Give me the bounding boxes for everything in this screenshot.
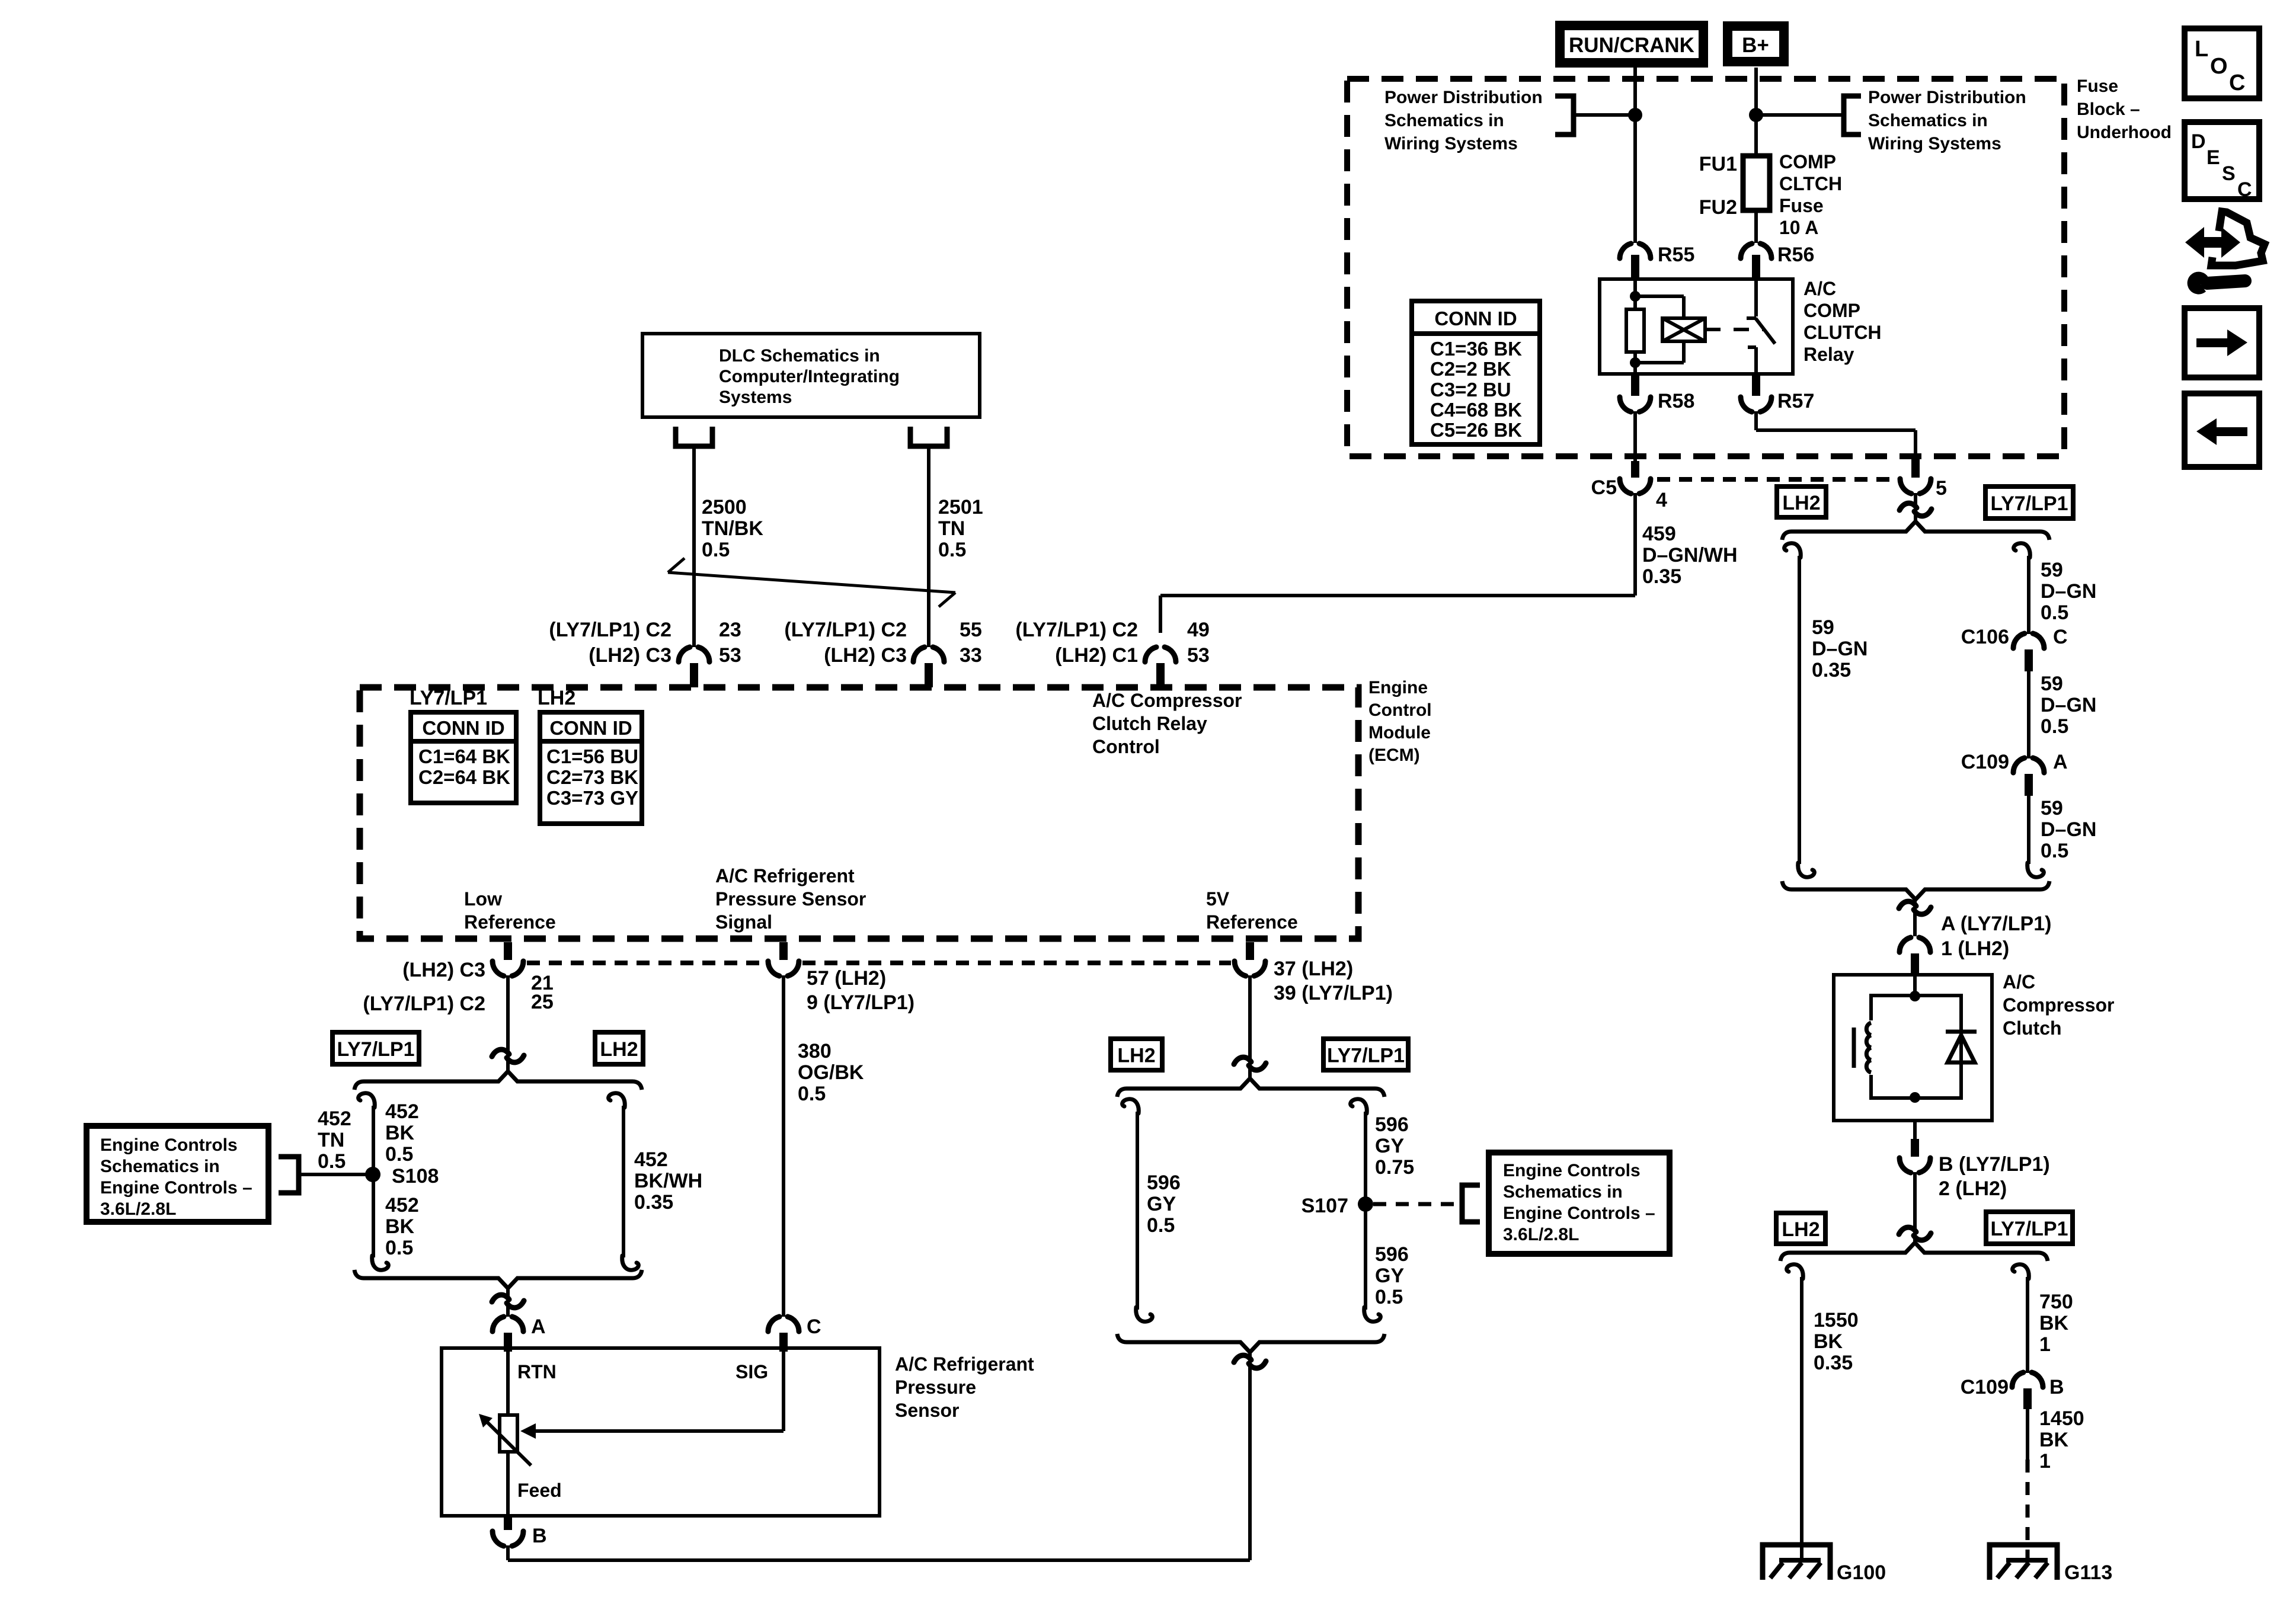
- svg-text:0.75: 0.75: [1375, 1156, 1414, 1179]
- svg-text:55: 55: [960, 619, 982, 641]
- svg-text:(LY7/LP1) C2: (LY7/LP1) C2: [549, 619, 671, 641]
- clutch inner circuit rect: [1871, 996, 1961, 1098]
- svg-text:Schematics in: Schematics in: [100, 1157, 220, 1176]
- svg-text:Power Distribution: Power Distribution: [1868, 88, 2026, 107]
- wire relay switch common: [1754, 279, 1758, 316]
- svg-text:TN/BK: TN/BK: [702, 517, 763, 540]
- svg-text:E: E: [2207, 146, 2220, 169]
- wire bracket to B+ feed: [1756, 113, 1844, 117]
- wire 452 BK/WH: [622, 1106, 625, 1257]
- svg-text:Pressure: Pressure: [895, 1377, 976, 1398]
- svg-text:0.5: 0.5: [702, 539, 730, 561]
- svg-text:RTN: RTN: [517, 1361, 557, 1382]
- pigtail 596 GY left bottom: [1136, 1307, 1153, 1321]
- svg-text:1550: 1550: [1814, 1309, 1859, 1331]
- table CONN ID fuse block: [1412, 301, 1540, 444]
- svg-text:LH2: LH2: [1782, 1218, 1819, 1241]
- svg-text:57 (LH2): 57 (LH2): [807, 967, 886, 990]
- svg-text:RUN/CRANK: RUN/CRANK: [1569, 34, 1694, 57]
- junction node relay top: [1630, 291, 1641, 302]
- wire brace to sensor A: [506, 1286, 510, 1317]
- svg-text:B: B: [2049, 1376, 2064, 1398]
- wire RUN/CRANK to R55: [1633, 68, 1637, 243]
- junction node relay bottom: [1630, 357, 1641, 368]
- svg-text:0.35: 0.35: [1814, 1352, 1853, 1374]
- svg-text:452: 452: [318, 1108, 351, 1130]
- svg-text:0.5: 0.5: [798, 1083, 826, 1105]
- pigtail LY7 branch top (59): [2014, 543, 2030, 558]
- svg-text:Reference: Reference: [1206, 911, 1298, 933]
- svg-text:FU2: FU2: [1699, 196, 1737, 219]
- connector R57: [1752, 374, 1760, 396]
- svg-text:0.5: 0.5: [385, 1237, 413, 1259]
- reference box Engine Controls Schematics (right): [1489, 1153, 1670, 1254]
- svg-text:GY: GY: [1375, 1265, 1404, 1287]
- svg-text:CLTCH: CLTCH: [1779, 173, 1842, 194]
- component box A/C Refrigerant Pressure Sensor: [442, 1348, 880, 1516]
- connector ECM pin 57/9: [779, 942, 788, 960]
- bracket to Power Distribution note (left): [1555, 96, 1574, 135]
- pigtail 452 BK top: [359, 1093, 375, 1108]
- svg-text:C3=73 GY: C3=73 GY: [546, 787, 638, 809]
- icon box arrow right: [2185, 308, 2259, 377]
- pigtail G100 branch: [1787, 1265, 1803, 1279]
- svg-text:750: 750: [2039, 1291, 2073, 1313]
- pigtail LY7 branch bottom (59): [2028, 863, 2044, 877]
- svg-text:A/C: A/C: [1803, 278, 1836, 299]
- svg-text:596: 596: [1375, 1243, 1409, 1266]
- fuse block dashed boundary: [1347, 79, 2064, 456]
- wire 750 BK: [2026, 1277, 2029, 1373]
- sensor resistor arrow: [487, 1422, 531, 1465]
- svg-text:(LH2) C3: (LH2) C3: [589, 644, 671, 667]
- svg-text:TN: TN: [938, 517, 965, 540]
- wire relay pin R55 to coil resistor: [1633, 279, 1637, 311]
- svg-text:LY7/LP1: LY7/LP1: [410, 687, 487, 709]
- connector row dashed line (fuse block): [1657, 477, 1897, 482]
- svg-text:Schematics in: Schematics in: [1503, 1182, 1623, 1202]
- connector clutch pin A: [1900, 937, 1911, 952]
- svg-text:1450: 1450: [2039, 1407, 2084, 1430]
- component box DLC Schematics in Computer/Integrating Systems: [642, 334, 980, 417]
- svg-text:Block –: Block –: [2077, 100, 2140, 119]
- svg-text:2 (LH2): 2 (LH2): [1939, 1177, 2007, 1200]
- wire low reference to split: [506, 975, 510, 1073]
- svg-text:B (LY7/LP1): B (LY7/LP1): [1939, 1153, 2050, 1176]
- sensor variable resistor: [500, 1415, 517, 1452]
- svg-text:53: 53: [1187, 644, 1210, 667]
- svg-text:CLUTCH: CLUTCH: [1803, 322, 1882, 343]
- svg-text:BK: BK: [385, 1122, 415, 1144]
- svg-text:49: 49: [1187, 619, 1210, 641]
- connector clutch pin B: [1911, 1139, 1919, 1157]
- connector ECM pin 37/39: [1246, 942, 1254, 960]
- wire bracket to RUN/CRANK feed: [1574, 113, 1635, 117]
- svg-text:(ECM): (ECM): [1368, 745, 1420, 765]
- wire relay coil branch bottom: [1682, 341, 1686, 363]
- svg-text:C1=36 BK: C1=36 BK: [1430, 338, 1522, 360]
- svg-text:LH2: LH2: [1117, 1045, 1155, 1067]
- svg-text:0.35: 0.35: [1642, 565, 1681, 588]
- wire 1450 BK solid: [2026, 1409, 2029, 1459]
- brace harness options top (452): [354, 1071, 642, 1090]
- netbox LH2 (clutch ground): [1776, 1213, 1825, 1244]
- wire 59 D-GN 0.5 segment 2: [2027, 671, 2030, 758]
- svg-text:0.35: 0.35: [1812, 659, 1851, 681]
- relay coil box: [1662, 318, 1705, 341]
- svg-text:Relay: Relay: [1803, 344, 1854, 365]
- split symbol 5V reference: [1234, 1057, 1251, 1064]
- wire R58 to C5: [1633, 411, 1637, 463]
- svg-text:Pressure Sensor: Pressure Sensor: [715, 888, 866, 910]
- svg-text:BK: BK: [1814, 1330, 1843, 1353]
- connector R55: [1620, 244, 1631, 258]
- split symbol above compressor clutch: [1899, 901, 1916, 908]
- svg-text:596: 596: [1147, 1172, 1181, 1194]
- svg-text:0.35: 0.35: [634, 1191, 673, 1214]
- connector C106 pin C: [2013, 633, 2025, 648]
- icon box DESC: [2185, 122, 2259, 199]
- svg-text:CONN ID: CONN ID: [1434, 308, 1517, 329]
- wire 5V reference to split: [1248, 975, 1252, 1080]
- svg-text:C106: C106: [1961, 626, 2009, 648]
- svg-text:A/C Refrigerant: A/C Refrigerant: [895, 1353, 1034, 1375]
- connector sensor pin A: [493, 1317, 504, 1331]
- relay box A/C COMP CLUTCH Relay: [1600, 279, 1793, 374]
- svg-text:Fuse: Fuse: [2077, 76, 2118, 96]
- svg-text:Systems: Systems: [719, 388, 792, 407]
- junction dot B+ feed: [1749, 108, 1763, 122]
- connector R56: [1741, 244, 1752, 258]
- svg-text:GY: GY: [1375, 1135, 1404, 1157]
- wire RTN to resistor: [506, 1352, 510, 1416]
- svg-text:C: C: [807, 1315, 821, 1338]
- netbox LH2 (596 group): [1111, 1039, 1162, 1070]
- connector ECM pin 55/33: [913, 647, 925, 662]
- dashed wire S107 to engine controls note: [1373, 1202, 1459, 1206]
- svg-text:25: 25: [531, 991, 554, 1013]
- svg-text:59: 59: [2041, 559, 2063, 581]
- svg-text:A/C: A/C: [2003, 971, 2035, 993]
- fuse FU1/FU2 COMP CLTCH Fuse 10 A: [1743, 156, 1770, 210]
- wire 5 to brace: [1914, 493, 1917, 521]
- svg-text:C109: C109: [1961, 1376, 2009, 1398]
- svg-text:D–GN: D–GN: [2041, 580, 2096, 603]
- wire relay coil branch top: [1635, 295, 1684, 298]
- svg-text:C5=26 BK: C5=26 BK: [1430, 419, 1522, 441]
- wire fuse to R56: [1754, 210, 1758, 243]
- split symbol low reference: [492, 1049, 509, 1057]
- svg-text:D–GN/WH: D–GN/WH: [1642, 544, 1738, 566]
- svg-text:0.5: 0.5: [1147, 1214, 1175, 1237]
- svg-text:1 (LH2): 1 (LH2): [1941, 937, 2009, 960]
- relay resistor element: [1626, 309, 1644, 352]
- svg-text:D: D: [2191, 130, 2206, 153]
- ground G100: [1763, 1545, 1830, 1580]
- svg-text:COMP: COMP: [1779, 151, 1836, 172]
- wire clutch B to ground brace: [1913, 1172, 1917, 1244]
- clutch diode: [1948, 1035, 1975, 1062]
- svg-text:LH2: LH2: [538, 687, 575, 709]
- svg-text:S: S: [2222, 162, 2236, 185]
- svg-text:(LY7/LP1) C2: (LY7/LP1) C2: [784, 619, 907, 641]
- wire 452 BK lower: [372, 1174, 375, 1257]
- svg-text:0.5: 0.5: [2041, 601, 2068, 624]
- svg-text:380: 380: [798, 1040, 832, 1062]
- svg-text:10 A: 10 A: [1779, 217, 1818, 238]
- connector sensor pin C: [768, 1317, 779, 1331]
- svg-text:TN: TN: [318, 1129, 344, 1151]
- svg-text:C109: C109: [1961, 751, 2009, 773]
- svg-text:A/C Refrigerent: A/C Refrigerent: [715, 865, 855, 886]
- netbox LY7/LP1 (452 group): [332, 1032, 419, 1064]
- pigtail LH2 branch bottom (59): [1798, 863, 1815, 877]
- split symbol below 5: [1900, 503, 1917, 510]
- connector C5 pin 4: [1631, 461, 1639, 478]
- svg-text:37 (LH2): 37 (LH2): [1274, 958, 1353, 980]
- svg-text:D–GN: D–GN: [2041, 694, 2096, 716]
- pigtail 596 GY right bottom: [1364, 1307, 1381, 1321]
- DLC connector bracket left: [676, 427, 712, 446]
- connector 5: [1911, 458, 1920, 478]
- svg-text:GY: GY: [1147, 1193, 1176, 1215]
- svg-text:59: 59: [2041, 673, 2063, 695]
- pigtail 452 BK bottom: [372, 1256, 389, 1270]
- pigtail 596 GY right top: [1351, 1099, 1367, 1113]
- svg-text:(LY7/LP1) C2: (LY7/LP1) C2: [363, 993, 485, 1015]
- wire sensor B feed run: [506, 1545, 510, 1560]
- svg-text:C: C: [2229, 71, 2245, 95]
- connector row dashed line (ECM): [527, 961, 765, 965]
- svg-text:59: 59: [1812, 616, 1834, 639]
- svg-text:G113: G113: [2064, 1561, 2112, 1584]
- junction dot clutch top: [1910, 991, 1920, 1001]
- reference box Engine Controls Schematics (left): [87, 1126, 268, 1222]
- svg-text:39 (LY7/LP1): 39 (LY7/LP1): [1274, 982, 1393, 1004]
- svg-text:Engine Controls –: Engine Controls –: [1503, 1204, 1655, 1223]
- svg-text:C: C: [2053, 626, 2068, 648]
- svg-text:Fuse: Fuse: [1779, 195, 1824, 216]
- bracket engine controls note (right): [1462, 1185, 1480, 1222]
- svg-text:Module: Module: [1368, 723, 1431, 742]
- wire SIG into sensor: [782, 1352, 785, 1431]
- svg-text:Engine Controls: Engine Controls: [100, 1135, 238, 1155]
- wire 596 GY 0.5 right: [1364, 1204, 1367, 1310]
- wire B+ to fuse: [1754, 68, 1758, 157]
- brace harness options (clutch grounds): [1780, 1243, 2048, 1261]
- svg-text:Clutch Relay: Clutch Relay: [1092, 713, 1207, 734]
- bracket engine controls note (left): [279, 1157, 299, 1193]
- crossing slash mark: [668, 572, 955, 593]
- svg-text:Schematics in: Schematics in: [1384, 111, 1504, 130]
- relay actuation dashed link: [1705, 328, 1765, 331]
- svg-text:LH2: LH2: [1782, 492, 1820, 514]
- junction dot RUN/CRANK feed: [1628, 108, 1642, 122]
- svg-text:SIG: SIG: [736, 1361, 768, 1382]
- svg-text:Wiring Systems: Wiring Systems: [1868, 134, 2001, 153]
- svg-text:Computer/Integrating: Computer/Integrating: [719, 367, 900, 386]
- wire 1450 BK dashed to G113: [2026, 1459, 2030, 1563]
- svg-text:452: 452: [385, 1100, 419, 1123]
- split symbol above sensor A: [492, 1295, 509, 1302]
- svg-text:4: 4: [1656, 489, 1667, 511]
- svg-text:BK: BK: [2039, 1429, 2069, 1451]
- split symbol clutch ground: [1899, 1227, 1916, 1234]
- relay switch lower contact: [1748, 345, 1756, 349]
- svg-text:C1=56 BU: C1=56 BU: [546, 745, 638, 767]
- table CONN ID LY7/LP1: [411, 712, 516, 803]
- svg-text:Clutch: Clutch: [2003, 1017, 2062, 1039]
- splice S107: [1358, 1196, 1373, 1212]
- svg-text:G100: G100: [1837, 1561, 1886, 1584]
- connector C109 pin A: [2013, 758, 2025, 773]
- svg-text:R55: R55: [1658, 244, 1694, 266]
- svg-text:C3=2 BU: C3=2 BU: [1430, 379, 1511, 401]
- svg-text:Control: Control: [1092, 736, 1160, 757]
- wire 2500 TN/BK: [692, 446, 696, 647]
- connector C109 pin B: [2012, 1372, 2023, 1387]
- svg-text:C4=68 BK: C4=68 BK: [1430, 399, 1522, 421]
- wire S108 to engine controls note: [299, 1173, 373, 1176]
- svg-text:C: C: [2237, 178, 2252, 201]
- connector ECM pin 23/53: [679, 647, 690, 662]
- wire 2501 TN: [927, 446, 930, 647]
- netbox LY7/LP1 (596 group): [1323, 1039, 1408, 1070]
- svg-text:Control: Control: [1368, 700, 1432, 720]
- svg-text:B: B: [532, 1525, 547, 1547]
- svg-text:Signal: Signal: [715, 911, 772, 933]
- connector ECM pin 21/25: [504, 942, 512, 960]
- svg-text:LY7/LP1: LY7/LP1: [1990, 1218, 2068, 1240]
- pigtail 596 GY left top: [1123, 1099, 1139, 1113]
- svg-text:DLC Schematics in: DLC Schematics in: [719, 346, 880, 366]
- svg-text:C2=2 BK: C2=2 BK: [1430, 358, 1511, 380]
- clutch coil: [1867, 1020, 1875, 1075]
- wire 59 D-GN LH2 branch: [1798, 556, 1801, 864]
- svg-text:R56: R56: [1777, 244, 1814, 266]
- svg-text:Power Distribution: Power Distribution: [1384, 88, 1543, 107]
- svg-text:3.6L/2.8L: 3.6L/2.8L: [1503, 1225, 1579, 1244]
- svg-text:FU1: FU1: [1699, 153, 1737, 175]
- wire 380 OG/BK: [782, 975, 785, 1317]
- svg-text:1: 1: [2039, 1333, 2051, 1356]
- svg-text:S107: S107: [1302, 1195, 1348, 1217]
- wire 596 GY 0.75: [1364, 1112, 1367, 1204]
- svg-text:COMP: COMP: [1803, 300, 1860, 321]
- svg-text:C1=64 BK: C1=64 BK: [418, 745, 510, 767]
- brace harness options top (59 D-GN): [1782, 521, 2049, 540]
- svg-text:459: 459: [1642, 523, 1676, 545]
- svg-text:O: O: [2210, 54, 2228, 79]
- ECM dashed boundary: [360, 687, 1358, 939]
- relay switch contact tick: [1747, 316, 1756, 320]
- svg-text:9 (LY7/LP1): 9 (LY7/LP1): [807, 991, 914, 1014]
- brace harness options bottom (596): [1117, 1334, 1384, 1352]
- svg-text:OG/BK: OG/BK: [798, 1061, 864, 1084]
- svg-text:Engine: Engine: [1368, 678, 1428, 697]
- svg-text:452: 452: [385, 1194, 419, 1217]
- icon box LOC: [2185, 28, 2259, 98]
- wire clutch feed: [1913, 975, 1917, 996]
- wire 596 GY 0.5 left: [1136, 1112, 1139, 1310]
- svg-text:A: A: [531, 1315, 546, 1338]
- svg-text:Wiring Systems: Wiring Systems: [1384, 134, 1518, 153]
- svg-text:Reference: Reference: [464, 911, 556, 933]
- svg-text:CONN ID: CONN ID: [549, 717, 632, 739]
- svg-text:R58: R58: [1658, 390, 1694, 412]
- svg-text:Compressor: Compressor: [2003, 994, 2115, 1016]
- svg-text:0.5: 0.5: [2041, 840, 2068, 862]
- wire clutch to connector B: [1913, 1121, 1917, 1140]
- wire 596 brace to feed run: [1248, 1352, 1252, 1560]
- brace harness options top (596): [1117, 1078, 1384, 1097]
- connector R58: [1631, 374, 1639, 396]
- splice S108: [365, 1167, 380, 1182]
- svg-text:LY7/LP1: LY7/LP1: [1327, 1045, 1405, 1067]
- pigtail LH2 branch top (59): [1785, 543, 1801, 558]
- brace harness options bottom (452): [354, 1270, 642, 1288]
- wire 452 BK upper: [372, 1106, 375, 1174]
- DLC connector bracket right: [910, 427, 947, 446]
- svg-text:C2=73 BK: C2=73 BK: [546, 766, 638, 788]
- wire SIG to resistor wiper: [529, 1429, 784, 1433]
- svg-text:Sensor: Sensor: [895, 1400, 959, 1421]
- power feed box RUN/CRANK: [1555, 21, 1708, 68]
- svg-text:A (LY7/LP1): A (LY7/LP1): [1941, 913, 2051, 935]
- wire 1550 BK to G100: [1800, 1277, 1803, 1560]
- component box A/C Compressor Clutch: [1834, 975, 1992, 1121]
- svg-text:1: 1: [2039, 1450, 2051, 1473]
- svg-text:0.5: 0.5: [1375, 1286, 1403, 1308]
- netbox LH2 (452 group): [595, 1032, 643, 1064]
- svg-text:23: 23: [719, 619, 741, 641]
- svg-text:Schematics in: Schematics in: [1868, 111, 1988, 130]
- svg-text:Low: Low: [464, 888, 502, 910]
- pigtail G113 branch: [2013, 1265, 2029, 1279]
- svg-text:LY7/LP1: LY7/LP1: [1990, 492, 2068, 515]
- svg-text:S108: S108: [392, 1165, 439, 1188]
- svg-text:2501: 2501: [938, 496, 983, 518]
- svg-text:BK: BK: [385, 1215, 415, 1238]
- svg-text:2500: 2500: [702, 496, 747, 518]
- icon box arrow left: [2185, 393, 2259, 467]
- svg-text:452: 452: [634, 1148, 668, 1171]
- svg-text:LY7/LP1: LY7/LP1: [337, 1038, 414, 1061]
- netbox LH2 (relay output): [1777, 486, 1826, 517]
- svg-text:Engine Controls: Engine Controls: [1503, 1161, 1641, 1180]
- svg-text:0.5: 0.5: [938, 539, 966, 561]
- svg-text:33: 33: [960, 644, 982, 667]
- split symbol below 596 brace: [1234, 1355, 1251, 1362]
- svg-text:0.5: 0.5: [2041, 715, 2068, 738]
- svg-text:596: 596: [1375, 1113, 1409, 1136]
- netbox LY7/LP1 (relay output): [1985, 486, 2073, 518]
- brace harness options bottom (59 D-GN): [1782, 881, 2049, 900]
- svg-text:LH2: LH2: [600, 1038, 638, 1061]
- wire brace to clutch connector A: [1913, 897, 1917, 936]
- connector ECM pin 49/53: [1145, 647, 1156, 662]
- svg-text:(LH2) C3: (LH2) C3: [402, 959, 485, 981]
- svg-text:A: A: [2053, 751, 2068, 773]
- svg-text:(LY7/LP1) C2: (LY7/LP1) C2: [1015, 619, 1138, 641]
- svg-text:0.5: 0.5: [318, 1150, 346, 1173]
- svg-text:5: 5: [1936, 477, 1947, 500]
- svg-text:BK: BK: [2039, 1312, 2069, 1334]
- connector sensor pin B: [504, 1516, 512, 1530]
- svg-text:CONN ID: CONN ID: [422, 717, 504, 739]
- svg-text:3.6L/2.8L: 3.6L/2.8L: [100, 1199, 176, 1219]
- svg-text:(LH2) C1: (LH2) C1: [1055, 644, 1138, 667]
